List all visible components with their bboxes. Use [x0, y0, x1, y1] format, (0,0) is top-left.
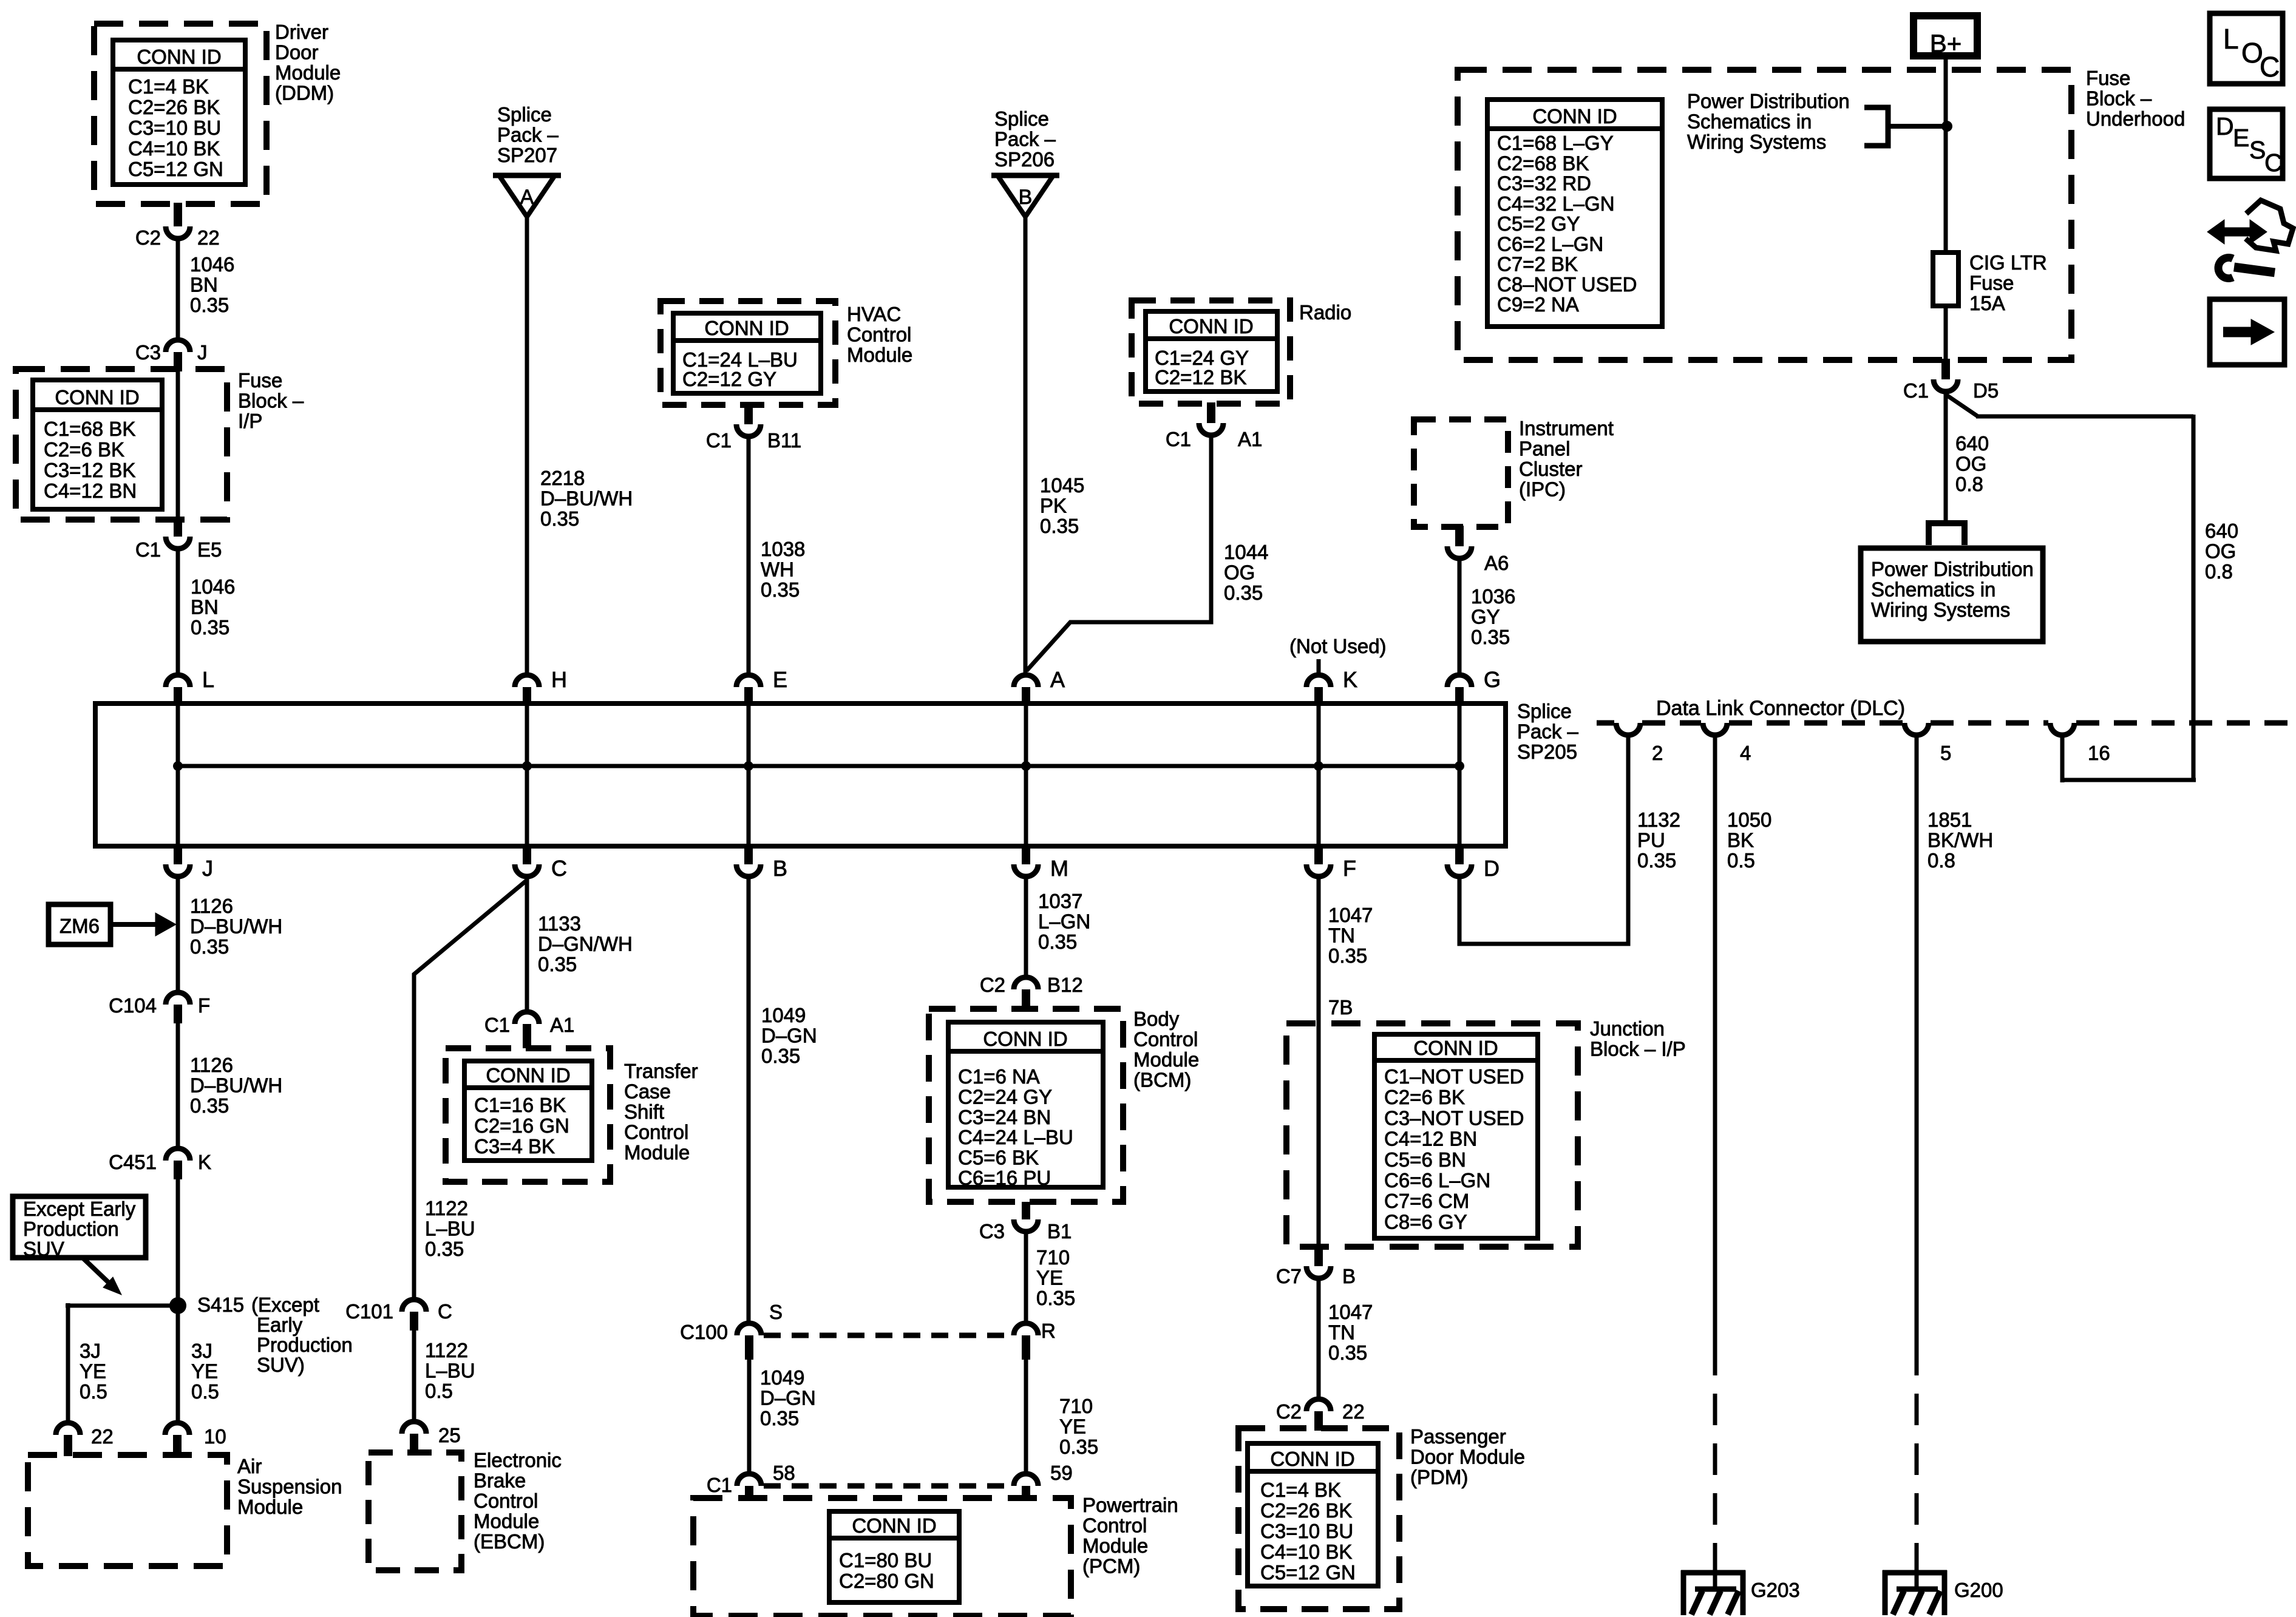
svg-text:B: B	[1019, 186, 1033, 209]
svg-text:C451: C451	[109, 1151, 157, 1173]
connector C7 pin B at Junction Block	[1314, 1246, 1323, 1266]
svg-text:1047: 1047	[1328, 904, 1373, 926]
svg-text:C1=6 NA: C1=6 NA	[958, 1065, 1040, 1088]
svg-text:C1=16 BK: C1=16 BK	[474, 1094, 566, 1116]
svg-text:22: 22	[197, 226, 220, 249]
connector C1 pin A1 at Transfer Case module	[515, 1012, 539, 1024]
svg-text:CONN ID: CONN ID	[1532, 105, 1617, 127]
svg-text:Brake: Brake	[474, 1470, 526, 1492]
svg-text:0.35: 0.35	[425, 1238, 464, 1260]
svg-text:YE: YE	[191, 1360, 218, 1383]
svg-text:710: 710	[1036, 1246, 1070, 1269]
callout box Except Early Production SUV	[13, 1196, 146, 1258]
svg-text:K: K	[1343, 667, 1357, 692]
svg-text:2218: 2218	[540, 467, 585, 489]
svg-text:Pack –: Pack –	[994, 128, 1056, 151]
svg-text:OG: OG	[2205, 540, 2236, 563]
fuse CIG LTR 15A	[1933, 253, 1958, 306]
connector pin 10 at Air Suspension Module	[165, 1423, 189, 1435]
wire 1050 BK dashed segment to G203	[1713, 1344, 1717, 1570]
svg-text:C: C	[2264, 149, 2283, 177]
svg-text:1132: 1132	[1637, 808, 1680, 831]
svg-text:F: F	[1343, 856, 1356, 881]
svg-text:B11: B11	[767, 429, 801, 452]
svg-text:0.35: 0.35	[1224, 581, 1263, 604]
wire 1126 D-BU/WH lower segment	[176, 1023, 180, 1147]
wire through bus at pin E	[747, 705, 751, 845]
svg-text:Production: Production	[23, 1218, 119, 1240]
svg-text:B: B	[1342, 1265, 1356, 1287]
svg-text:C3–NOT USED: C3–NOT USED	[1384, 1107, 1524, 1129]
svg-text:1122: 1122	[425, 1197, 468, 1219]
svg-text:BN: BN	[190, 274, 218, 296]
svg-text:1049: 1049	[760, 1366, 804, 1389]
wire 1132 PU from DLC pin 2 to splice D	[1459, 737, 1628, 944]
connector C1 pin 58 at PCM	[737, 1474, 761, 1486]
wire 1047 TN lower segment	[1317, 1281, 1321, 1398]
wire 710 YE lower segment	[1024, 1360, 1028, 1473]
svg-text:Module: Module	[275, 61, 341, 84]
svg-text:TN: TN	[1328, 1321, 1355, 1344]
connector pin A6 at IPC	[1455, 526, 1464, 546]
svg-text:C2=16 GN: C2=16 GN	[474, 1114, 569, 1137]
icon forward arrow box	[2210, 299, 2284, 365]
svg-text:0.35: 0.35	[1471, 626, 1510, 648]
svg-text:1038: 1038	[761, 538, 805, 560]
Transfer Case CONN ID table	[464, 1061, 592, 1161]
connector C2 pin 22 at PDM	[1306, 1399, 1331, 1411]
connector C1 pin E5 at Fuse Block I/P	[174, 517, 182, 537]
svg-text:GY: GY	[1471, 606, 1500, 628]
svg-text:Module: Module	[237, 1496, 303, 1518]
wire through bus at pin L	[176, 705, 180, 845]
svg-text:BN: BN	[191, 596, 219, 619]
module HVAC Control Module dashed box	[661, 301, 835, 405]
svg-text:ZM6: ZM6	[59, 915, 100, 937]
svg-text:PU: PU	[1637, 829, 1665, 852]
svg-text:C: C	[438, 1300, 452, 1323]
svg-text:0.35: 0.35	[1328, 944, 1367, 967]
svg-text:SP205: SP205	[1517, 741, 1577, 763]
stub of unused pin K	[1317, 659, 1321, 674]
svg-text:E: E	[773, 667, 787, 692]
svg-text:SUV: SUV	[23, 1238, 64, 1260]
wire 1046 BN lower segment	[176, 551, 180, 673]
svg-text:Powertrain: Powertrain	[1082, 1494, 1178, 1516]
callout box ZM6	[49, 904, 110, 944]
svg-text:D5: D5	[1973, 379, 1999, 402]
svg-text:16: 16	[2088, 742, 2110, 764]
svg-text:Driver: Driver	[275, 21, 328, 43]
svg-text:22: 22	[91, 1425, 114, 1448]
svg-text:C8=6 GY: C8=6 GY	[1384, 1210, 1467, 1233]
wire through Fuse Block I/P	[176, 371, 180, 518]
connector DLC dashed boundary	[1597, 720, 1614, 726]
svg-text:CONN ID: CONN ID	[1413, 1037, 1498, 1059]
svg-text:Fuse: Fuse	[238, 369, 282, 392]
svg-text:(BCM): (BCM)	[1133, 1069, 1191, 1091]
svg-text:0.35: 0.35	[761, 578, 800, 601]
connector pin 59 at PCM	[1014, 1474, 1038, 1486]
svg-text:1046: 1046	[190, 253, 234, 276]
svg-text:C1=80 BU: C1=80 BU	[839, 1549, 932, 1571]
svg-text:L: L	[2223, 23, 2239, 55]
wire 640 OG to DLC pin 16	[1946, 395, 1978, 416]
wire through bus at pin K	[1317, 705, 1321, 845]
svg-text:C4=32 L–GN: C4=32 L–GN	[1497, 192, 1615, 215]
svg-text:CONN ID: CONN ID	[1169, 315, 1253, 337]
svg-text:C4=24 L–BU: C4=24 L–BU	[958, 1126, 1073, 1148]
svg-text:0.35: 0.35	[761, 1045, 800, 1067]
svg-text:640: 640	[1955, 432, 1989, 455]
svg-text:Control: Control	[1133, 1028, 1198, 1051]
connector C2 pin 22 at DDM	[174, 203, 182, 226]
wire 710 YE upper segment	[1024, 1234, 1028, 1322]
svg-text:1122: 1122	[425, 1339, 468, 1361]
splice S415 junction dot	[169, 1297, 186, 1314]
svg-text:(Not Used): (Not Used)	[1289, 635, 1387, 657]
svg-text:Early: Early	[257, 1314, 303, 1336]
svg-text:15A: 15A	[1969, 292, 2005, 314]
connector pin H at SP205 top	[515, 675, 539, 687]
svg-text:C1: C1	[135, 538, 161, 561]
svg-text:OG: OG	[1955, 453, 1986, 475]
svg-text:25: 25	[438, 1424, 461, 1446]
svg-text:Schematics in: Schematics in	[1687, 110, 1812, 133]
svg-text:Splice: Splice	[994, 107, 1049, 130]
svg-text:C: C	[551, 856, 567, 881]
svg-text:SUV): SUV)	[257, 1354, 305, 1376]
svg-text:C4=12 BN: C4=12 BN	[44, 480, 137, 502]
svg-text:1126: 1126	[190, 895, 233, 917]
svg-text:CONN ID: CONN ID	[704, 317, 789, 339]
wire 1133 D-GN/WH	[525, 879, 529, 1011]
svg-text:C9=2 NA: C9=2 NA	[1497, 293, 1579, 316]
connector pin M at SP205 bottom	[1022, 844, 1030, 864]
svg-text:Suspension: Suspension	[237, 1476, 342, 1498]
svg-text:0.35: 0.35	[540, 507, 579, 530]
svg-text:J: J	[197, 341, 208, 364]
splice pack SP207 triangle A	[493, 173, 561, 178]
svg-text:C1–NOT USED: C1–NOT USED	[1384, 1065, 1524, 1088]
svg-text:Pack –: Pack –	[497, 124, 559, 146]
HVAC CONN ID table	[673, 313, 821, 393]
svg-text:Underhood: Underhood	[2086, 107, 2185, 130]
svg-text:10: 10	[204, 1425, 226, 1448]
svg-text:Passenger: Passenger	[1410, 1425, 1506, 1448]
svg-text:0.35: 0.35	[1328, 1341, 1367, 1364]
svg-text:C5=12 GN: C5=12 GN	[128, 158, 223, 180]
svg-text:(EBCM): (EBCM)	[474, 1530, 545, 1553]
svg-text:C2=24 GY: C2=24 GY	[958, 1085, 1052, 1108]
svg-text:CONN ID: CONN ID	[852, 1514, 936, 1537]
wire through bus at pin A	[1024, 705, 1028, 845]
svg-text:C1=68 L–GY: C1=68 L–GY	[1497, 132, 1614, 154]
svg-text:D: D	[2216, 112, 2234, 140]
svg-text:C2: C2	[1276, 1400, 1302, 1423]
svg-text:Transfer: Transfer	[624, 1060, 698, 1082]
svg-text:1045: 1045	[1040, 474, 1084, 497]
svg-text:3J: 3J	[191, 1340, 212, 1362]
wire 1036 GY	[1458, 561, 1462, 673]
svg-text:1050: 1050	[1727, 808, 1771, 831]
svg-text:C6=2 L–GN: C6=2 L–GN	[1497, 232, 1603, 255]
svg-text:0.35: 0.35	[1038, 931, 1077, 953]
svg-text:Control: Control	[474, 1490, 538, 1512]
svg-text:Air: Air	[237, 1455, 262, 1477]
module Transfer Case Shift Control Module dashed box	[446, 1048, 610, 1182]
module Junction Block I/P dashed box	[1286, 1023, 1578, 1247]
svg-text:0.35: 0.35	[191, 616, 229, 639]
svg-text:HVAC: HVAC	[847, 303, 901, 325]
wire through bus at pin G	[1458, 705, 1462, 845]
svg-text:1049: 1049	[761, 1004, 806, 1026]
svg-text:S: S	[769, 1301, 783, 1323]
connector C3 pin J at Fuse Block I/P	[166, 340, 190, 352]
svg-text:Control: Control	[1082, 1514, 1147, 1537]
svg-text:L–GN: L–GN	[1038, 910, 1090, 933]
svg-text:C1=4 BK: C1=4 BK	[1260, 1479, 1341, 1501]
connector C1 pin A1 at Radio	[1207, 402, 1215, 423]
svg-text:Fuse: Fuse	[1969, 272, 2014, 294]
svg-text:C1: C1	[1903, 379, 1929, 402]
svg-text:C1: C1	[484, 1014, 510, 1036]
svg-text:L–BU: L–BU	[425, 1218, 475, 1240]
svg-text:S: S	[2249, 136, 2266, 164]
svg-text:0.5: 0.5	[191, 1380, 219, 1403]
svg-text:B1: B1	[1047, 1220, 1072, 1242]
svg-text:Production: Production	[257, 1334, 353, 1356]
svg-text:SP207: SP207	[497, 144, 557, 166]
svg-text:Module: Module	[847, 344, 912, 366]
connector C451 pin K inline	[166, 1148, 190, 1161]
connector DLC pin 5	[1904, 723, 1929, 735]
svg-text:C4=10 BK: C4=10 BK	[1260, 1541, 1352, 1563]
svg-text:D–BU/WH: D–BU/WH	[190, 1074, 282, 1097]
svg-text:C2=26 BK: C2=26 BK	[1260, 1499, 1352, 1522]
svg-text:CIG LTR: CIG LTR	[1969, 251, 2047, 274]
svg-text:Data Link Connector (DLC): Data Link Connector (DLC)	[1656, 697, 1905, 720]
svg-text:E: E	[2233, 124, 2249, 152]
connector C104 pin F inline	[166, 992, 190, 1005]
PCM CONN ID table	[829, 1511, 959, 1602]
connector PCM pins dashed boundary	[764, 1483, 1011, 1489]
svg-text:Block – I/P: Block – I/P	[1590, 1038, 1686, 1060]
svg-text:Junction: Junction	[1590, 1017, 1665, 1040]
svg-text:C4=10 BK: C4=10 BK	[128, 137, 220, 160]
svg-text:D–BU/WH: D–BU/WH	[190, 915, 282, 938]
svg-text:0.5: 0.5	[80, 1380, 107, 1403]
svg-text:0.35: 0.35	[1036, 1287, 1075, 1309]
DDM CONN ID table	[113, 40, 245, 185]
connector C3 pin B1 at BCM	[1022, 1202, 1030, 1219]
svg-text:Module: Module	[474, 1510, 539, 1533]
svg-text:C2: C2	[135, 226, 161, 249]
ground G203	[1681, 1570, 1745, 1576]
svg-text:(DDM): (DDM)	[275, 82, 334, 104]
wire 3J YE right branch	[176, 1179, 180, 1422]
svg-text:7B: 7B	[1328, 996, 1353, 1019]
svg-text:Control: Control	[624, 1121, 688, 1144]
svg-text:Electronic: Electronic	[474, 1449, 562, 1471]
junction dot on B+ feed	[1941, 121, 1952, 132]
svg-text:0.35: 0.35	[190, 1094, 229, 1117]
svg-text:Except Early: Except Early	[23, 1198, 136, 1220]
svg-text:C3=24 BN: C3=24 BN	[958, 1106, 1051, 1128]
junction dot on SP205 bus	[1455, 761, 1464, 771]
svg-text:Wiring Systems: Wiring Systems	[1687, 131, 1826, 153]
connector C1 pin D5 at Fuse Block Underhood	[1941, 359, 1950, 379]
wire 1851 BK/WH from DLC pin 5 solid segment	[1915, 737, 1919, 1344]
svg-text:C2=80 GN: C2=80 GN	[839, 1570, 934, 1592]
wire 1122 L-BU diagonal from splice C	[414, 880, 527, 1298]
svg-text:C104: C104	[109, 994, 157, 1017]
svg-text:22: 22	[1342, 1400, 1365, 1423]
svg-text:Power Distribution: Power Distribution	[1871, 558, 2034, 580]
wire 2218 D-BU/WH from SP207	[525, 215, 529, 673]
connector pin K at SP205 top	[1306, 675, 1331, 687]
wire through bus at pin H	[525, 705, 529, 845]
wire 1050 BK from DLC pin 4 solid segment	[1713, 737, 1717, 1344]
svg-text:1126: 1126	[190, 1054, 233, 1076]
svg-text:C3=10 BU: C3=10 BU	[128, 117, 221, 139]
icon arrows and wrench	[2246, 200, 2293, 251]
connector C100 pin S inline	[737, 1323, 761, 1335]
svg-text:Block –: Block –	[2086, 87, 2152, 110]
wire 1049 D-GN upper segment	[747, 879, 751, 1322]
svg-text:Fuse: Fuse	[2086, 67, 2130, 89]
svg-text:I/P: I/P	[238, 410, 262, 432]
svg-text:1036: 1036	[1471, 585, 1515, 608]
svg-text:WH: WH	[761, 558, 794, 581]
svg-text:D–GN: D–GN	[760, 1387, 816, 1409]
svg-text:A1: A1	[550, 1014, 574, 1036]
svg-text:0.35: 0.35	[538, 953, 577, 975]
ground G200	[1883, 1570, 1947, 1576]
svg-text:D–GN: D–GN	[761, 1025, 817, 1047]
svg-text:C1: C1	[707, 1474, 732, 1496]
module Radio dashed box	[1132, 300, 1290, 404]
wire 1126 D-BU/WH upper segment	[176, 879, 180, 991]
svg-text:Case: Case	[624, 1080, 671, 1103]
svg-text:1133: 1133	[538, 912, 581, 935]
svg-text:5: 5	[1940, 742, 1951, 764]
svg-text:0.5: 0.5	[1727, 849, 1755, 872]
svg-text:G203: G203	[1751, 1579, 1800, 1601]
svg-text:Door Module: Door Module	[1410, 1446, 1525, 1468]
svg-text:C3=32 RD: C3=32 RD	[1497, 172, 1591, 195]
svg-text:YE: YE	[80, 1360, 106, 1383]
connector pin C at SP205 bottom	[523, 844, 531, 864]
svg-text:C6=16 PU: C6=16 PU	[958, 1167, 1051, 1189]
svg-text:59: 59	[1050, 1462, 1073, 1484]
svg-text:Instrument: Instrument	[1519, 417, 1614, 439]
svg-text:M: M	[1050, 856, 1068, 881]
svg-text:BK/WH: BK/WH	[1927, 829, 1993, 852]
svg-text:B12: B12	[1047, 974, 1083, 996]
module Instrument Panel Cluster dashed box	[1414, 419, 1508, 527]
svg-text:(Except: (Except	[251, 1293, 319, 1316]
svg-text:CONN ID: CONN ID	[55, 386, 139, 408]
wire 1038 WH	[747, 439, 751, 673]
wire 1047 TN upper segment	[1317, 879, 1321, 1247]
splice pack SP205 internal bus wire	[178, 764, 1459, 768]
svg-text:0.8: 0.8	[1955, 473, 1983, 495]
icon LOC box	[2210, 13, 2283, 84]
connector pin E at SP205 top	[736, 675, 761, 687]
svg-text:Module: Module	[1082, 1534, 1148, 1557]
svg-text:D–BU/WH: D–BU/WH	[540, 487, 633, 510]
svg-text:710: 710	[1059, 1395, 1093, 1417]
svg-text:0.35: 0.35	[1040, 515, 1079, 537]
svg-text:A6: A6	[1484, 552, 1509, 574]
svg-text:Radio: Radio	[1299, 301, 1351, 324]
svg-text:B: B	[773, 856, 787, 881]
svg-text:C7=2 BK: C7=2 BK	[1497, 253, 1578, 276]
svg-text:0.8: 0.8	[1927, 849, 1955, 872]
svg-text:(PCM): (PCM)	[1082, 1555, 1140, 1578]
Radio CONN ID table	[1146, 311, 1277, 392]
svg-text:Shift: Shift	[624, 1100, 664, 1123]
svg-text:C2=6 BK: C2=6 BK	[1384, 1086, 1465, 1108]
connector DLC pin 2	[1616, 723, 1640, 735]
BCM CONN ID table	[948, 1022, 1103, 1187]
Fuse Block Underhood CONN ID table	[1487, 100, 1662, 327]
svg-text:2: 2	[1652, 742, 1663, 764]
svg-text:Pack –: Pack –	[1517, 720, 1579, 743]
connector pin A at SP205 top	[1014, 675, 1038, 687]
svg-text:Splice: Splice	[497, 103, 552, 126]
svg-text:A: A	[520, 186, 534, 209]
svg-text:CONN ID: CONN ID	[486, 1064, 570, 1086]
svg-text:Schematics in: Schematics in	[1871, 578, 1995, 601]
connector pin F at SP205 bottom	[1314, 844, 1323, 864]
svg-text:1037: 1037	[1038, 890, 1082, 912]
svg-text:C3: C3	[135, 341, 161, 364]
connector pin J at SP205 bottom	[174, 844, 182, 864]
svg-text:G200: G200	[1954, 1579, 2003, 1601]
svg-text:C3: C3	[979, 1220, 1005, 1242]
bracket to power distribution note	[1864, 107, 1888, 146]
svg-text:Wiring Systems: Wiring Systems	[1871, 598, 2010, 621]
svg-text:TN: TN	[1328, 924, 1355, 947]
module DDM (Driver Door Module) dashed box	[94, 24, 267, 204]
module BCM dashed box	[929, 1009, 1123, 1202]
connector pin 22 at Air Suspension Module	[56, 1423, 80, 1435]
module Air Suspension Module dashed box	[28, 1455, 227, 1566]
svg-text:C5=2 GY: C5=2 GY	[1497, 212, 1580, 235]
arrow from ZM6 to wire	[110, 922, 157, 927]
svg-text:C7=6 CM: C7=6 CM	[1384, 1190, 1469, 1212]
svg-text:PK: PK	[1040, 495, 1067, 517]
splice pack SP205 bus outline	[95, 703, 1506, 846]
svg-text:3J: 3J	[80, 1340, 101, 1362]
svg-text:Body: Body	[1133, 1008, 1180, 1030]
Fuse Block I/P CONN ID table	[33, 380, 162, 509]
wire 1045 PK from SP206	[1024, 215, 1028, 673]
svg-text:58: 58	[773, 1462, 795, 1484]
svg-text:E5: E5	[197, 538, 222, 561]
junction dot on SP205 bus	[744, 761, 753, 771]
connector pin B at SP205 bottom	[744, 844, 753, 864]
svg-text:S415: S415	[197, 1293, 244, 1316]
svg-text:K: K	[198, 1151, 211, 1173]
svg-text:C3=4 BK: C3=4 BK	[474, 1135, 555, 1158]
svg-text:A: A	[1050, 667, 1065, 692]
svg-text:C6=6 L–GN: C6=6 L–GN	[1384, 1169, 1490, 1192]
svg-text:YE: YE	[1059, 1415, 1086, 1438]
svg-text:C1: C1	[1166, 428, 1191, 450]
